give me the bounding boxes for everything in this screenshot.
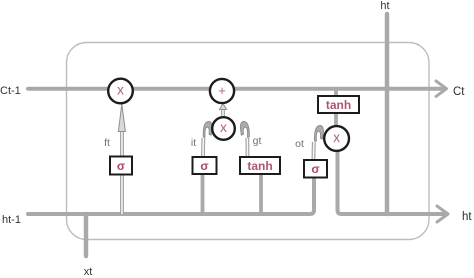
svg-text:σ: σ xyxy=(117,159,125,173)
svg-text:x: x xyxy=(117,83,124,98)
gate X1 multiply circle xyxy=(108,79,133,104)
wire: stub top line to tanh1 xyxy=(334,89,338,97)
wire: branch up to tanh2 xyxy=(259,174,263,214)
gate X2 multiply circle xyxy=(212,117,235,140)
svg-text:+: + xyxy=(218,83,226,98)
gate plus circle xyxy=(210,79,234,103)
svg-text:ht: ht xyxy=(380,0,389,12)
wire: hidden-state input line ht-1 xyxy=(28,177,314,214)
svg-text:tanh: tanh xyxy=(326,98,351,112)
arrow X2 to plus xyxy=(219,104,226,118)
wire: branch up to sigma2 xyxy=(201,174,205,214)
arrowhead Ct xyxy=(436,81,447,96)
wire: stub tanh1 to X3 xyxy=(334,112,338,127)
svg-text:Ct: Ct xyxy=(453,86,465,98)
arrow gt: tanh2 to X2 (curved) xyxy=(240,121,249,157)
svg-text:ft: ft xyxy=(104,137,110,149)
cell body rounded rectangle xyxy=(67,43,430,240)
wire: outlined branch bottom line to sigma1 xyxy=(120,174,124,214)
svg-text:x: x xyxy=(220,120,227,135)
wire: output line from X3 down and right to ht xyxy=(338,150,444,214)
tanh1 box xyxy=(318,96,359,113)
svg-text:gt: gt xyxy=(253,135,262,147)
gate X3 multiply circle xyxy=(324,126,349,151)
wire: ht vertical output to top xyxy=(385,14,390,214)
arrow sigma1 to X1 xyxy=(118,104,125,156)
svg-text:tanh: tanh xyxy=(247,159,272,173)
svg-text:σ: σ xyxy=(200,159,208,173)
svg-text:x: x xyxy=(333,130,340,145)
sigma3 box xyxy=(304,160,327,178)
arrow ot: sigma3 to X3 (curved) xyxy=(314,125,324,160)
tanh2 box xyxy=(240,157,280,174)
wire: xt vertical input xyxy=(84,214,89,256)
svg-text:σ: σ xyxy=(311,162,319,176)
svg-text:ot: ot xyxy=(295,138,304,150)
arrow it: sigma2 to X2 (curved) xyxy=(203,121,212,157)
svg-text:Ct-1: Ct-1 xyxy=(0,85,21,97)
svg-text:ht-1: ht-1 xyxy=(2,214,21,226)
svg-text:it: it xyxy=(191,137,196,149)
arrowhead ht xyxy=(437,206,448,222)
sigma2 box xyxy=(193,157,217,174)
svg-text:ht: ht xyxy=(462,211,472,223)
wire: cell-state line Ct-1 to Ct xyxy=(28,87,442,91)
sigma1 box xyxy=(110,157,132,175)
svg-text:xt: xt xyxy=(84,266,93,278)
